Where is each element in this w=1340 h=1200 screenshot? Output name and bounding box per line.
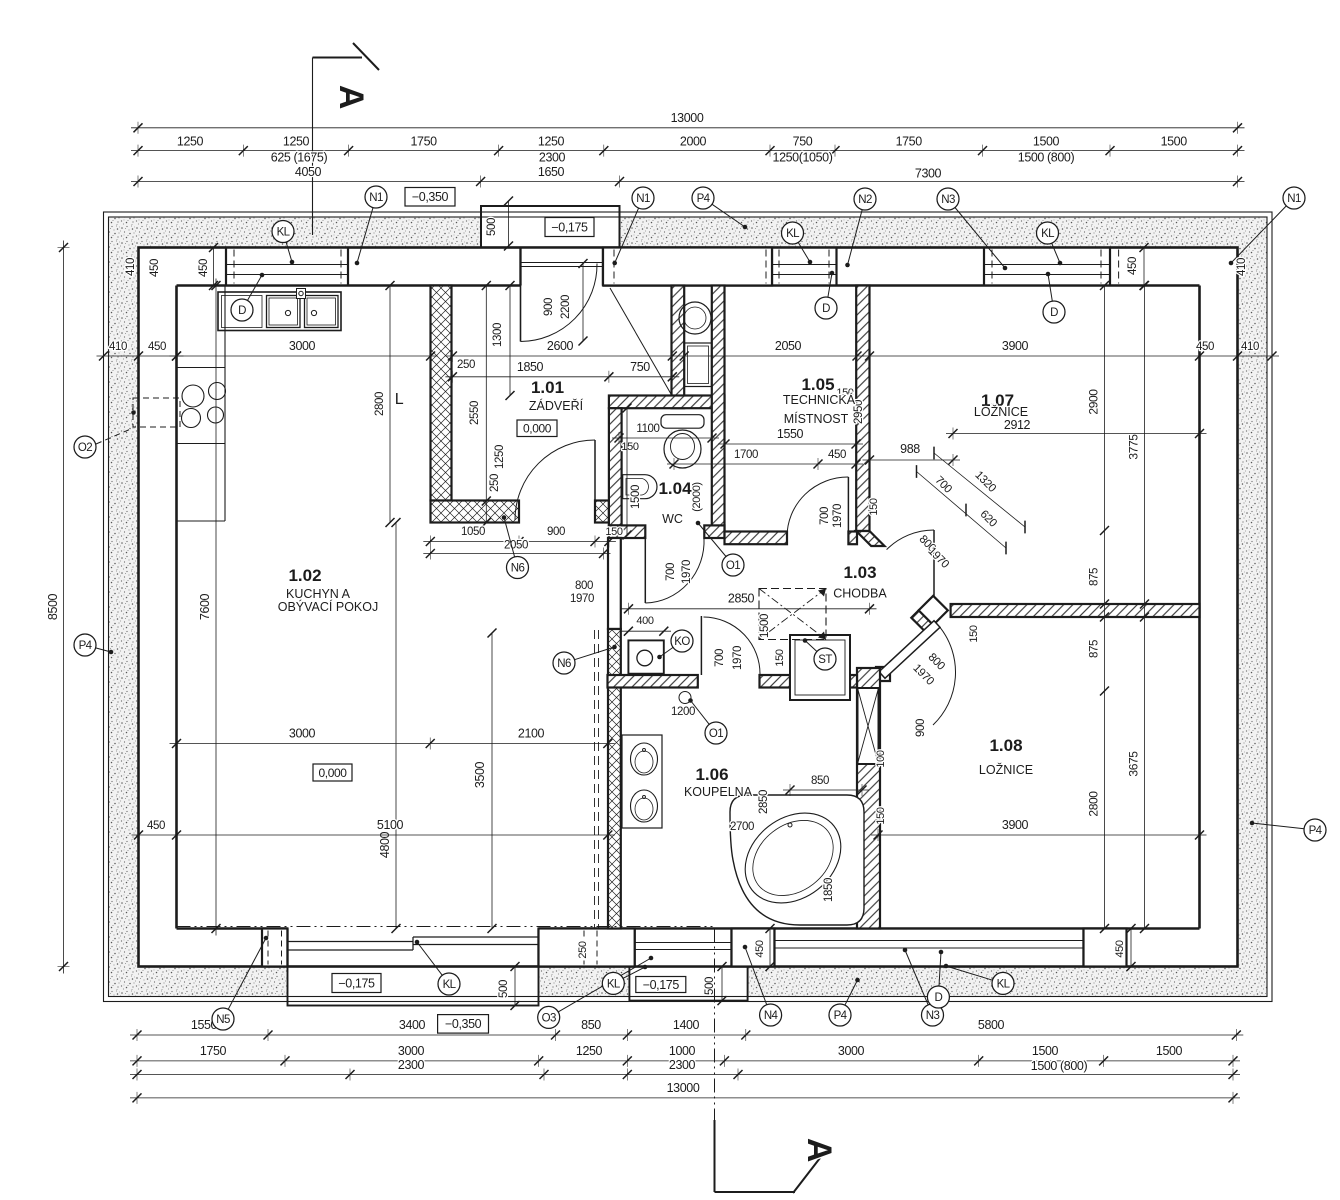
svg-text:−0,350: −0,350 — [412, 190, 449, 204]
svg-text:100: 100 — [875, 750, 887, 767]
svg-text:7600: 7600 — [198, 593, 212, 620]
svg-text:400: 400 — [636, 615, 653, 627]
svg-text:KL: KL — [277, 227, 291, 239]
svg-text:13000: 13000 — [671, 111, 704, 125]
svg-text:250: 250 — [457, 359, 475, 371]
svg-text:2800: 2800 — [1087, 791, 1101, 817]
svg-text:1300: 1300 — [492, 323, 504, 347]
svg-text:2000: 2000 — [680, 135, 707, 149]
svg-text:1500: 1500 — [759, 614, 771, 638]
svg-text:150: 150 — [875, 807, 887, 824]
svg-text:ZÁDVEŘÍ: ZÁDVEŘÍ — [529, 398, 584, 413]
svg-text:2050: 2050 — [504, 540, 528, 552]
svg-text:4050: 4050 — [295, 165, 322, 179]
svg-text:5800: 5800 — [978, 1018, 1005, 1032]
svg-text:850: 850 — [811, 775, 829, 787]
svg-text:2912: 2912 — [1004, 418, 1031, 432]
svg-text:250: 250 — [577, 941, 589, 958]
svg-text:N1: N1 — [636, 193, 650, 205]
svg-text:1250: 1250 — [283, 135, 310, 149]
svg-text:7300: 7300 — [915, 167, 942, 181]
svg-text:KL: KL — [607, 978, 621, 990]
svg-text:D: D — [238, 305, 246, 317]
svg-text:450: 450 — [754, 940, 766, 957]
svg-text:3500: 3500 — [473, 761, 487, 788]
svg-text:2300: 2300 — [669, 1058, 696, 1072]
svg-text:CHODBA: CHODBA — [833, 587, 887, 601]
svg-text:1500: 1500 — [1033, 135, 1060, 149]
svg-text:KL: KL — [443, 979, 457, 991]
svg-text:2550: 2550 — [469, 401, 481, 425]
svg-text:900: 900 — [915, 719, 927, 737]
svg-text:450: 450 — [147, 820, 165, 832]
svg-text:1970: 1970 — [681, 560, 693, 584]
svg-text:450: 450 — [1114, 940, 1126, 957]
svg-text:N5: N5 — [216, 1014, 230, 1026]
svg-text:N4: N4 — [764, 1010, 779, 1022]
svg-text:2300: 2300 — [539, 151, 566, 165]
svg-text:450: 450 — [1127, 257, 1139, 275]
svg-text:OBÝVACÍ POKOJ: OBÝVACÍ POKOJ — [278, 599, 379, 614]
svg-text:500: 500 — [498, 980, 510, 998]
svg-text:A: A — [332, 85, 370, 109]
svg-text:1250: 1250 — [576, 1044, 603, 1058]
svg-text:2100: 2100 — [518, 727, 545, 741]
svg-text:150: 150 — [968, 625, 980, 642]
svg-text:1700: 1700 — [734, 449, 758, 461]
svg-text:1750: 1750 — [410, 135, 437, 149]
svg-text:KO: KO — [674, 636, 690, 648]
svg-text:150: 150 — [774, 649, 786, 666]
svg-text:2850: 2850 — [758, 790, 770, 814]
svg-text:N2: N2 — [858, 194, 872, 206]
svg-text:500: 500 — [486, 218, 498, 236]
svg-text:750: 750 — [630, 360, 650, 374]
svg-text:L: L — [395, 391, 404, 408]
svg-text:875: 875 — [1089, 640, 1101, 658]
svg-text:1050: 1050 — [461, 526, 485, 538]
svg-text:410: 410 — [109, 341, 127, 353]
svg-text:450: 450 — [198, 259, 210, 277]
svg-text:1500: 1500 — [1032, 1044, 1059, 1058]
svg-text:P4: P4 — [79, 640, 93, 652]
svg-text:2850: 2850 — [728, 592, 755, 606]
svg-text:450: 450 — [1196, 341, 1214, 353]
svg-text:1.05: 1.05 — [801, 375, 834, 394]
svg-text:LOŽNICE: LOŽNICE — [979, 762, 1033, 777]
svg-text:KL: KL — [997, 978, 1011, 990]
svg-text:−0,175: −0,175 — [551, 220, 588, 234]
svg-text:150: 150 — [605, 526, 622, 538]
svg-text:3900: 3900 — [1002, 339, 1029, 353]
svg-text:1100: 1100 — [636, 423, 659, 435]
svg-text:TECHNICKÁ: TECHNICKÁ — [783, 392, 856, 407]
svg-text:1250: 1250 — [538, 135, 565, 149]
svg-text:4800: 4800 — [378, 831, 392, 858]
svg-text:MÍSTNOST: MÍSTNOST — [784, 411, 849, 426]
svg-text:410: 410 — [1241, 341, 1259, 353]
svg-text:A: A — [800, 1138, 838, 1162]
svg-text:1250: 1250 — [494, 445, 506, 469]
svg-text:900: 900 — [547, 526, 565, 538]
svg-text:1850: 1850 — [823, 878, 835, 902]
svg-text:P4: P4 — [834, 1010, 848, 1022]
svg-text:1550: 1550 — [777, 427, 804, 441]
svg-text:410: 410 — [125, 258, 137, 276]
svg-text:700: 700 — [819, 507, 831, 525]
svg-text:1970: 1970 — [832, 504, 844, 528]
svg-text:N6: N6 — [511, 563, 525, 575]
svg-text:1750: 1750 — [896, 135, 923, 149]
svg-text:(2000): (2000) — [691, 482, 703, 511]
svg-text:3675: 3675 — [1127, 751, 1141, 777]
svg-text:1500 (800): 1500 (800) — [1031, 1059, 1088, 1073]
svg-text:3000: 3000 — [289, 339, 316, 353]
svg-text:N3: N3 — [941, 194, 955, 206]
svg-text:2800: 2800 — [374, 392, 386, 416]
svg-text:3400: 3400 — [399, 1018, 426, 1032]
svg-text:1.04: 1.04 — [658, 479, 692, 498]
svg-text:−0,350: −0,350 — [445, 1017, 482, 1031]
svg-text:1.01: 1.01 — [531, 378, 564, 397]
svg-text:2300: 2300 — [398, 1058, 425, 1072]
svg-text:450: 450 — [149, 259, 161, 277]
svg-text:1250: 1250 — [177, 135, 204, 149]
svg-text:0,000: 0,000 — [523, 422, 552, 436]
svg-text:1.03: 1.03 — [843, 563, 876, 582]
svg-text:N3: N3 — [926, 1010, 940, 1022]
svg-text:1500: 1500 — [1156, 1044, 1183, 1058]
svg-text:2200: 2200 — [560, 295, 572, 319]
svg-text:KUCHYN A: KUCHYN A — [286, 587, 351, 601]
svg-text:1200: 1200 — [671, 706, 695, 718]
svg-text:800: 800 — [575, 580, 593, 592]
svg-text:988: 988 — [900, 442, 920, 456]
svg-text:1970: 1970 — [570, 593, 594, 605]
svg-text:1750: 1750 — [200, 1044, 227, 1058]
svg-text:1.02: 1.02 — [288, 566, 321, 585]
svg-text:N1: N1 — [1287, 193, 1301, 205]
svg-text:1850: 1850 — [517, 360, 544, 374]
svg-text:700: 700 — [665, 563, 677, 581]
svg-text:1650: 1650 — [538, 165, 565, 179]
svg-text:N6: N6 — [557, 658, 571, 670]
svg-text:150: 150 — [621, 441, 638, 453]
svg-text:−0,175: −0,175 — [643, 978, 680, 992]
svg-text:410: 410 — [1236, 258, 1248, 276]
svg-text:D: D — [1050, 307, 1058, 319]
svg-text:LOŽNICE: LOŽNICE — [974, 404, 1028, 419]
svg-text:1500 (800): 1500 (800) — [1018, 151, 1075, 165]
svg-text:O1: O1 — [709, 728, 723, 740]
svg-text:1250(1050): 1250(1050) — [773, 151, 833, 165]
svg-text:13000: 13000 — [667, 1081, 700, 1095]
svg-text:625 (1675): 625 (1675) — [271, 151, 328, 165]
svg-text:900: 900 — [543, 298, 555, 316]
svg-text:3000: 3000 — [289, 727, 316, 741]
svg-text:1000: 1000 — [669, 1044, 696, 1058]
svg-text:3775: 3775 — [1127, 434, 1141, 460]
svg-text:N1: N1 — [369, 192, 383, 204]
svg-text:850: 850 — [581, 1018, 601, 1032]
svg-text:P4: P4 — [1309, 825, 1323, 837]
svg-text:2600: 2600 — [547, 339, 574, 353]
svg-text:5100: 5100 — [377, 818, 404, 832]
svg-text:250: 250 — [489, 474, 501, 492]
svg-text:D: D — [935, 992, 943, 1004]
svg-text:150: 150 — [868, 498, 880, 515]
svg-text:0,000: 0,000 — [318, 766, 347, 780]
svg-text:1.08: 1.08 — [989, 736, 1022, 755]
svg-text:2700: 2700 — [730, 821, 754, 833]
svg-text:875: 875 — [1089, 568, 1101, 586]
svg-text:1.06: 1.06 — [695, 765, 728, 784]
svg-text:1500: 1500 — [1161, 135, 1188, 149]
svg-text:ST: ST — [818, 654, 832, 666]
svg-text:700: 700 — [714, 649, 726, 667]
svg-text:O2: O2 — [78, 442, 92, 454]
svg-text:3000: 3000 — [838, 1044, 865, 1058]
svg-text:KOUPELNA: KOUPELNA — [684, 785, 753, 799]
svg-text:O3: O3 — [542, 1012, 556, 1024]
svg-text:750: 750 — [793, 135, 813, 149]
svg-text:O1: O1 — [726, 560, 740, 572]
svg-text:−0,175: −0,175 — [338, 976, 375, 990]
svg-text:KL: KL — [786, 228, 800, 240]
svg-text:3000: 3000 — [398, 1044, 425, 1058]
svg-text:3900: 3900 — [1002, 818, 1029, 832]
svg-text:450: 450 — [148, 341, 166, 353]
svg-text:D: D — [822, 303, 830, 315]
svg-text:P4: P4 — [697, 193, 711, 205]
svg-text:1970: 1970 — [732, 646, 744, 670]
svg-text:8500: 8500 — [46, 593, 60, 620]
svg-text:1400: 1400 — [673, 1018, 700, 1032]
svg-text:450: 450 — [828, 449, 846, 461]
svg-text:WC: WC — [662, 512, 683, 526]
svg-text:2900: 2900 — [1087, 389, 1101, 415]
svg-text:KL: KL — [1041, 228, 1055, 240]
svg-text:1500: 1500 — [630, 485, 642, 509]
svg-text:2050: 2050 — [775, 339, 802, 353]
